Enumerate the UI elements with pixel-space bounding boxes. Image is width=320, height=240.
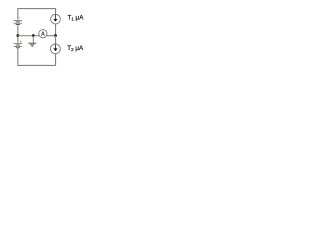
- current source T1 circle: [51, 14, 61, 24]
- wire right vertical bottom (T2 to corner): [55, 54, 57, 66]
- wire right vertical (T1 to node): [55, 24, 57, 36]
- current source T1 arrow shaft: [55, 14, 57, 19]
- node ground junction dot: [32, 34, 35, 37]
- ground bar middle: [30, 44, 34, 46]
- ammeter A1 circle: [39, 30, 47, 38]
- svg-text:+: +: [18, 16, 21, 21]
- ground bar wide: [28, 42, 36, 44]
- wire left vertical middle (B1 to node): [17, 25, 19, 43]
- wire right vertical top (corner to T1): [55, 8, 57, 14]
- current source T2 arrowhead: [53, 48, 57, 51]
- battery B2 long plate top: [13, 43, 22, 45]
- svg-text:T2 μA: T2 μA: [67, 45, 84, 52]
- battery B2 short plate: [16, 44, 20, 46]
- wire bottom horizontal: [17, 64, 55, 66]
- svg-text:A: A: [41, 32, 45, 38]
- battery B2 long plate lower: [13, 45, 22, 47]
- current source T2 arrow shaft: [55, 44, 57, 49]
- wire right vertical (node to T2): [55, 36, 57, 44]
- ground stem wire: [32, 36, 34, 43]
- wire left vertical upper (corner to battery B1): [17, 8, 19, 20]
- wire top horizontal: [17, 8, 55, 10]
- wire middle horizontal left of ammeter: [17, 35, 39, 37]
- battery B1 long plate lower: [13, 22, 22, 24]
- battery B1 short plate bottom: [16, 24, 20, 26]
- current source T1 arrowhead: [53, 19, 57, 22]
- svg-text:T1 μA: T1 μA: [68, 14, 85, 21]
- current source T2 circle: [51, 44, 61, 54]
- battery B1 long plate top: [13, 20, 22, 22]
- node right junction dot: [54, 34, 57, 37]
- wire middle horizontal right of ammeter: [47, 35, 56, 37]
- wire left vertical lower (B2 to bottom corner): [17, 49, 19, 66]
- node left junction dot: [16, 34, 19, 37]
- battery B1 short plate: [16, 21, 20, 23]
- battery B2 short plate bottom: [16, 47, 20, 49]
- svg-text:+: +: [19, 40, 22, 46]
- ground bar narrow: [31, 45, 33, 47]
